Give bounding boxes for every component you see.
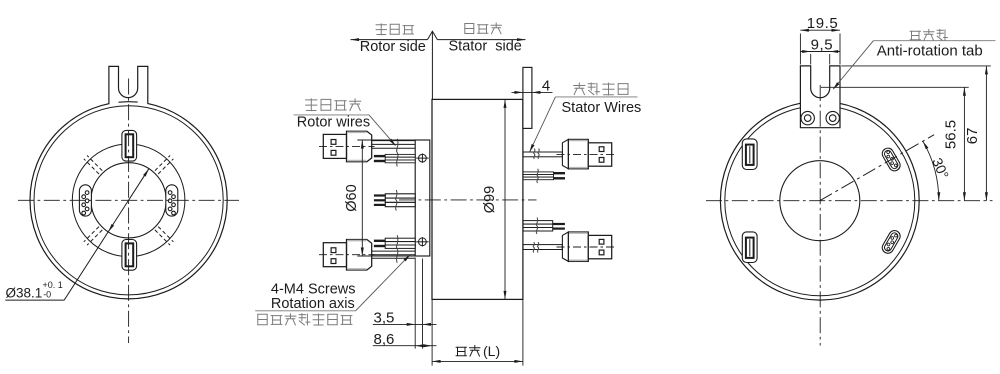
left view top slot inner socket (126, 134, 134, 157)
dimension Ø60 (344, 140, 415, 256)
rotor middle wires break mark (396, 190, 398, 211)
stator connector center line (557, 153, 617, 155)
rotor bottom wire sleeves (374, 238, 415, 248)
svg-text:Stator Wires: Stator Wires (562, 100, 642, 116)
stator connector shell (562, 139, 568, 168)
label stator side (Chinese) (465, 23, 502, 34)
rotor bottom wires break mark (396, 235, 398, 263)
side view flange plate (415, 140, 430, 256)
svg-text:Ø60: Ø60 (344, 184, 360, 211)
30 degree angle arc (923, 141, 940, 201)
label Stator Wires leader (530, 97, 638, 152)
connector plug body (323, 134, 346, 158)
right view left lower slot (742, 232, 757, 263)
flange screw hole bottom (M4) (416, 237, 428, 246)
right view outer circle (720, 101, 919, 300)
dimension 19.5 (800, 15, 840, 64)
stator upper sleeves break (537, 169, 539, 183)
right view 30-degree radial line (820, 135, 934, 201)
rotor top wire sleeves (374, 154, 415, 162)
label rotor screw holes (Chinese) (258, 314, 352, 326)
stator side arrow line (437, 38, 525, 41)
svg-text:Rotation axis: Rotation axis (271, 296, 355, 312)
connector plug contacts (331, 248, 336, 253)
svg-text:56.5: 56.5 (943, 120, 960, 149)
left view bottom slot inner socket (126, 243, 134, 266)
svg-text:19.5: 19.5 (807, 15, 839, 32)
connector plug body (323, 243, 346, 267)
left view Ø38.1 dimension text (6, 280, 63, 300)
side view anti-rotation tab (edge) (523, 67, 532, 128)
stator connector plug (588, 143, 611, 166)
label Rotor wires leader (294, 115, 396, 146)
connector center line (319, 254, 375, 256)
svg-text:4: 4 (542, 78, 550, 95)
label stator wires (Chinese) (574, 83, 628, 95)
svg-text:67: 67 (964, 128, 981, 145)
stator connector contacts (599, 147, 604, 152)
right view left upper slot (742, 139, 757, 170)
svg-text:3,5: 3,5 (374, 310, 395, 327)
flange screw hole top (M4) (416, 153, 428, 162)
dimension length L (432, 299, 523, 365)
svg-text:4-M4 Screws: 4-M4 Screws (271, 282, 356, 298)
right view outer circle inner contour (725, 106, 915, 296)
rotor/stator divider line (428, 31, 438, 99)
rotor side arrow line (351, 38, 428, 41)
label length (L) (456, 343, 500, 359)
dimension 3.5 (373, 258, 437, 349)
dimension 4 (tab thickness) (512, 78, 553, 95)
left view horizontal center line (18, 199, 239, 201)
label 4-M4 leader (255, 254, 410, 311)
svg-text:Anti-rotation tab: Anti-rotation tab (877, 43, 983, 60)
stator upper wire sleeves (523, 172, 565, 180)
svg-text:Ø38.1: Ø38.1 (6, 285, 43, 300)
right view vertical center line (819, 85, 821, 346)
side view body (432, 99, 523, 299)
stator connector contacts (599, 239, 604, 244)
stator bottom connector wire (523, 245, 562, 250)
svg-text:-0: -0 (43, 290, 51, 300)
left view bore circle Ø38.1 (91, 163, 166, 238)
tab mounting hole right (826, 111, 839, 124)
stator connector plug (588, 235, 611, 258)
label rotor side (Chinese) (376, 24, 414, 35)
left view left wire-hole oval (79, 185, 91, 216)
left view bottom slot (122, 240, 137, 271)
label Anti-rotation tab leader (833, 41, 996, 90)
left view 45-degree knurl marks (84, 156, 174, 246)
stator top connector wire (523, 152, 562, 157)
rotor middle wire sleeves (374, 194, 415, 207)
connector shell (347, 240, 372, 271)
connector shell (347, 131, 372, 162)
right view upper-right wire slot (880, 146, 902, 173)
left view vertical center line (128, 79, 130, 344)
svg-text:Rotor side: Rotor side (360, 39, 426, 55)
stator connector center line (557, 246, 617, 248)
left view top slot (122, 130, 137, 161)
stator middle wire sleeves (523, 221, 565, 231)
svg-text:Stator side: Stator side (449, 39, 522, 55)
svg-text:Rotor wires: Rotor wires (297, 115, 370, 131)
left view right wire-hole oval (166, 185, 178, 216)
left view Ø38.1 diameter leader (5, 169, 149, 300)
right view horizontal center line (706, 200, 993, 202)
side view center line (399, 199, 537, 201)
rotor bottom connector wires (372, 251, 416, 258)
right view anti-rotation tab (800, 66, 840, 128)
svg-text:(L): (L) (483, 343, 500, 359)
stator bottom wire break (533, 242, 539, 253)
rotor top wires break mark (397, 139, 399, 167)
dimension Ø99 (482, 99, 507, 299)
right view lower-right wire slot (880, 229, 902, 256)
left view anti-rotation tab fork (109, 66, 119, 104)
label anti-rotation tab (Chinese) (910, 29, 948, 40)
dimension 8.6 (373, 331, 437, 348)
right view bore circle (780, 161, 860, 241)
svg-text:30°: 30° (929, 155, 952, 181)
dimension 56.5 (821, 87, 969, 200)
left view outer circle inner contour (34, 106, 223, 295)
svg-text:9,5: 9,5 (811, 37, 834, 54)
dimension 9.5 (800, 37, 840, 65)
tab mounting hole left (801, 111, 814, 124)
left view rotor hub circle (72, 144, 185, 257)
label rotor wires (Chinese) (306, 99, 361, 111)
rotor top connector wires (372, 141, 416, 149)
svg-text:8,6: 8,6 (374, 331, 395, 348)
stator top wire break (534, 149, 540, 159)
connector plug contacts (331, 140, 336, 145)
label 4-M4 screws (271, 282, 356, 313)
left view outer circle (30, 102, 227, 299)
connector center line (319, 145, 375, 147)
svg-text:Ø99: Ø99 (482, 186, 498, 213)
stator connector shell (562, 232, 568, 261)
dimension 67 (841, 66, 991, 201)
stator middle sleeves break (536, 218, 538, 235)
